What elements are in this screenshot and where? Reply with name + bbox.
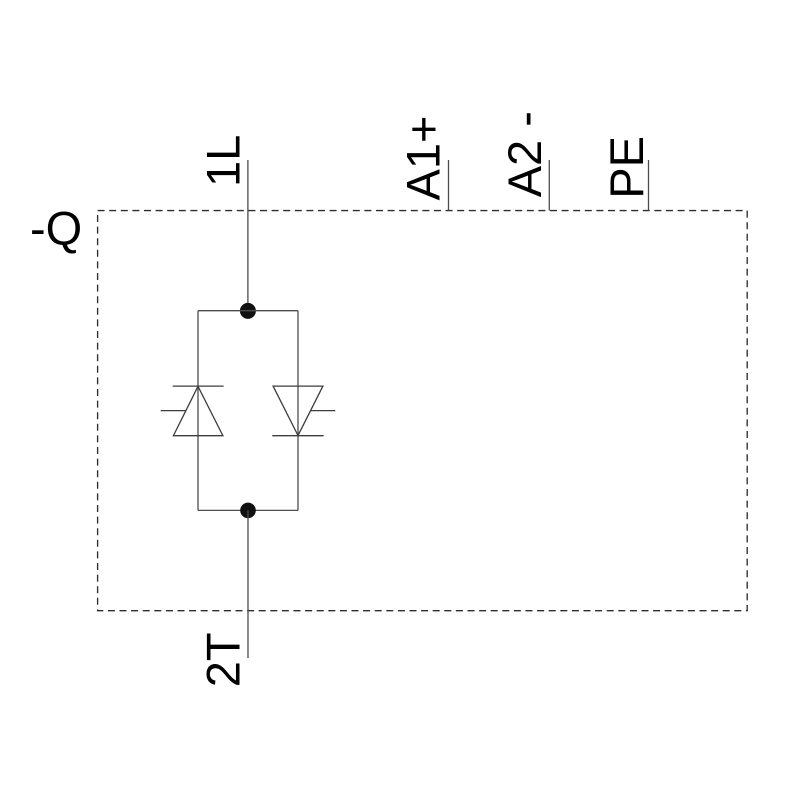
wire top horizontal bbox=[198, 310, 298, 312]
wire terminal 2T (bottom vertical) bbox=[247, 510, 249, 658]
terminal pin A2- bbox=[548, 160, 550, 211]
wire left branch bbox=[197, 311, 199, 511]
node bottom junction bbox=[240, 503, 256, 519]
svg-text:PE: PE bbox=[600, 136, 653, 199]
wire bottom horizontal bbox=[198, 509, 298, 511]
thyristor V1 (left, pointing up) bbox=[161, 386, 224, 436]
svg-text:1L: 1L bbox=[197, 135, 250, 187]
svg-text:2T: 2T bbox=[197, 632, 250, 687]
wire right branch bbox=[297, 311, 299, 511]
wire terminal 1L (top vertical) bbox=[247, 160, 249, 311]
node top junction bbox=[240, 303, 256, 319]
thyristor V2 (right, pointing down) bbox=[272, 386, 335, 436]
terminal pin A1+ bbox=[448, 160, 450, 211]
terminal pin PE bbox=[648, 160, 650, 211]
device outline -Q (dashed enclosure box) bbox=[98, 211, 748, 611]
svg-text:A1+: A1+ bbox=[397, 116, 450, 201]
svg-text:A2 -: A2 - bbox=[498, 111, 551, 197]
svg-text:-Q: -Q bbox=[30, 202, 82, 255]
